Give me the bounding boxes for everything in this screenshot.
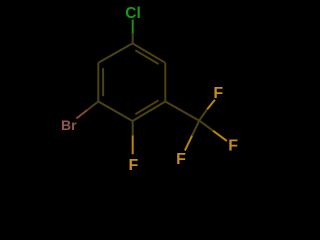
edge V2-V3 (right vertical): [164, 63, 166, 102]
Br bond outer half (bromine color): [76, 110, 87, 119]
CF3 to lower-left F bond outer half (gold): [185, 136, 192, 151]
bond ring V3 to CF3 carbon: [165, 102, 199, 121]
svg-text:Cl: Cl: [125, 5, 141, 22]
CF3 to top F bond outer half (gold): [207, 100, 215, 109]
chemical structure: 1-bromo-5-chloro-2-fluoro-3-(trifluoromethyl)benzene on black background: [0, 0, 300, 176]
edge V5-V6 (left vertical): [97, 63, 99, 102]
F ring bond upper half (carbon): [132, 121, 134, 136]
svg-text:Br: Br: [61, 117, 77, 133]
CF3 to right F bond inner half (carbon): [199, 121, 213, 131]
edge V1-V2 (top to upper-right): [133, 43, 166, 62]
svg-text:F: F: [213, 85, 223, 102]
CF3 to lower-left F bond inner half (carbon): [192, 121, 199, 136]
CF3 to right F bond outer half (gold): [213, 131, 227, 141]
edge V4-V5 (lower-left slant): [98, 102, 132, 122]
svg-text:F: F: [129, 157, 139, 174]
aromatic inner line on E12: [135, 50, 158, 64]
edge V3-V4 (lower-right slant): [133, 102, 166, 122]
F ring bond lower half (fluorine gold): [132, 136, 134, 155]
Cl bond upper half (green): [132, 20, 134, 34]
svg-text:F: F: [228, 137, 238, 154]
edge V6-V1 (upper-left slant): [98, 43, 132, 62]
aromatic inner line on E34: [135, 100, 158, 114]
svg-text:F: F: [176, 151, 186, 168]
Cl bond lower half (carbon): [132, 34, 134, 44]
aromatic inner line on E56: [102, 68, 104, 96]
CF3 to top F bond inner half (carbon): [199, 109, 207, 120]
Br bond inner half (carbon): [87, 102, 98, 111]
